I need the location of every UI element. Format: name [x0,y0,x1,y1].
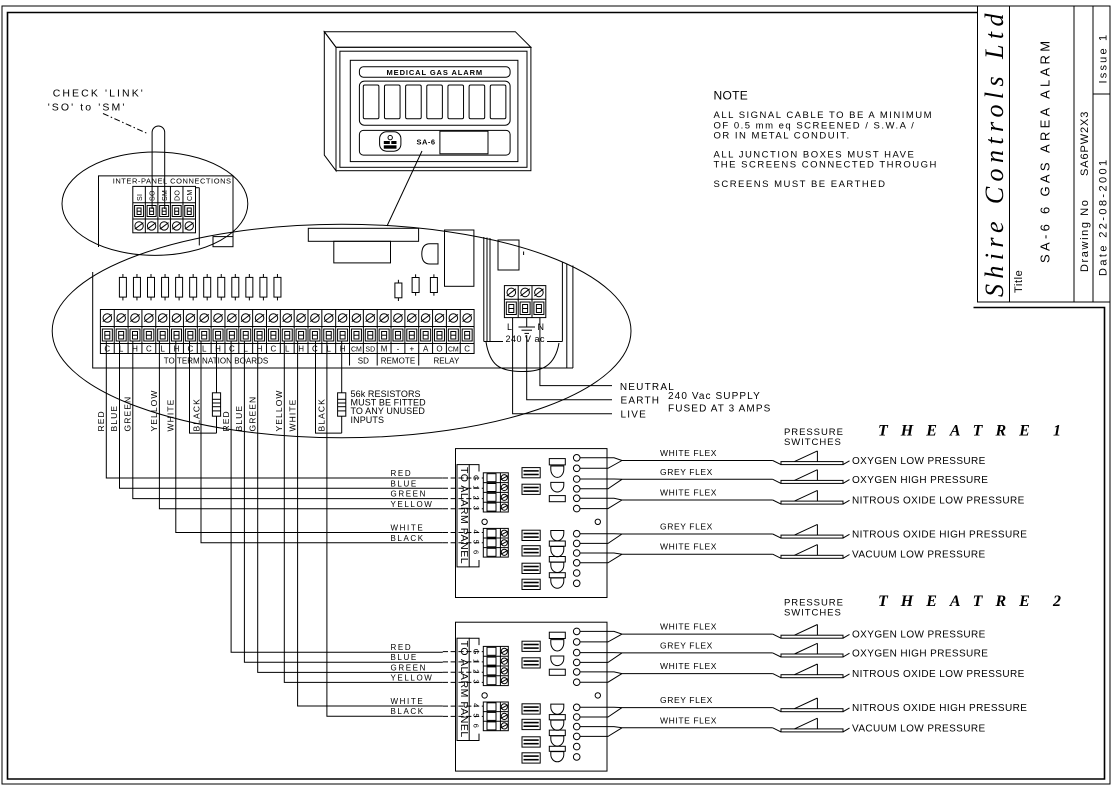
terminal 2 (L) screw [117,314,126,323]
terminal 10 (C) screw [228,314,237,323]
pressure switch: NITROUS OXIDE HIGH PRESSURE [773,534,781,538]
terminal SM screw [160,222,168,230]
capacitor C1 [122,274,124,277]
svg-text:240 V ac: 240 V ac [506,334,546,344]
cable hole [573,465,580,472]
tall component box [445,230,474,286]
cable gland [551,531,564,541]
dashed wire into junction box [443,532,484,534]
terminal 10 (C) clamp [227,329,237,341]
cable hole [573,550,580,557]
svg-text:Issue 1: Issue 1 [1098,33,1110,84]
svg-text:OXYGEN HIGH PRESSURE: OXYGEN HIGH PRESSURE [852,475,988,486]
svg-text:SWITCHES: SWITCHES [784,437,842,448]
dashed wire into junction box [443,487,484,489]
dashed wire into junction box [443,477,484,479]
svg-text:EARTH: EARTH [621,396,661,407]
svg-text:L: L [202,344,207,353]
mains terminal 1 clamp [506,302,516,315]
svg-text:NITROUS OXIDE LOW PRESSURE: NITROUS OXIDE LOW PRESSURE [852,496,1025,507]
alarm window 2 [384,85,400,119]
svg-text:GREEN: GREEN [391,663,427,672]
terminal 14 (L) screw [283,314,292,323]
alarm window 4 [427,85,443,119]
svg-text:C: C [229,344,235,353]
pressure switch: VACUUM LOW PRESSURE [773,554,781,558]
alarm panel front inner frame [340,51,527,167]
svg-text:INPUTS: INPUTS [351,415,385,425]
alarm panel title bar [359,67,510,77]
svg-text:H: H [340,344,346,353]
svg-text:Date 22-08-2001: Date 22-08-2001 [1098,157,1110,276]
svg-text:FUSED AT 3 AMPS: FUSED AT 3 AMPS [668,404,771,415]
cable clamp bar [549,557,565,563]
cable hole [573,505,580,512]
terminal 4 (C) screw [145,314,154,323]
svg-text:LIVE: LIVE [621,410,647,421]
wire RED theatre 1 [106,341,443,478]
svg-text:BLUE: BLUE [109,405,119,432]
terminal 27 (C) clamp [462,329,472,341]
svg-text:YELLOW: YELLOW [391,500,434,509]
cable hole [573,580,580,587]
svg-text:GREEN: GREEN [247,396,257,432]
svg-text:GREEN: GREEN [391,490,427,499]
wire GREEN theatre 2 [258,341,443,672]
svg-text:BLUE: BLUE [234,405,244,432]
title block divider 3 [1092,6,1094,302]
capacitor C10 [248,274,250,277]
svg-text:Shire Controls Ltd: Shire Controls Ltd [980,8,1009,297]
terminal 21 (M) screw [380,314,389,323]
terminal 24 (A) screw [421,314,430,323]
svg-text:CM: CM [187,190,194,202]
logo badge [380,132,401,152]
cable clamp bar [549,573,565,578]
cable gland [551,562,564,572]
svg-text:A: A [423,344,429,353]
pressure switch: OXYGEN LOW PRESSURE [773,461,781,465]
mains terminal 2 clamp [520,302,530,315]
pointer line from SA-6 panel to detail balloon [387,151,422,226]
terminal clamp component [522,579,540,589]
svg-text:GREY FLEX: GREY FLEX [660,522,713,532]
cable hole [573,495,580,502]
earth symbol [526,318,528,327]
svg-text:REMOTE: REMOTE [381,357,416,366]
pressure switch: OXYGEN HIGH PRESSURE [773,479,781,483]
mounting hole left [482,519,487,524]
terminal 8 (L) clamp [199,329,209,341]
terminal clamp component [522,484,540,494]
terminal 24 (A) clamp [421,329,431,341]
terminal 16 (C) screw [311,314,320,323]
svg-text:L: L [160,344,165,353]
svg-text:SD: SD [365,346,375,353]
terminal 13 (C) screw [269,314,278,323]
title block outline [978,6,1111,302]
pcb mark [523,252,525,256]
alarm panel bottom bar [359,130,510,155]
svg-text:WHITE: WHITE [287,399,297,432]
terminal SO clamp [147,206,156,217]
flex wire pair: GREY FLEX [580,478,773,480]
terminal 23 (+) screw [408,314,417,323]
mains terminal 2 screw [521,288,530,297]
capacitor C3 [150,274,152,277]
cable hole [573,560,580,567]
cable hole [573,476,580,483]
pressure switch: NITROUS OXIDE LOW PRESSURE [773,500,781,504]
cable gland [551,547,564,557]
alarm window 1 [363,85,379,119]
alarm panel left face [324,32,336,171]
capacitor C7 [206,274,208,277]
terminal 22 (-) clamp [393,329,403,341]
terminal 25 (O) clamp [434,329,444,341]
leader line (dash-dot) to link wire [103,114,149,135]
svg-text:H: H [298,344,304,353]
terminal 4 (C) clamp [144,329,154,341]
svg-text:5: 5 [472,540,481,544]
alarm panel window area [359,81,510,125]
svg-text:L: L [285,344,290,353]
terminal 19 (CM) clamp [351,329,361,341]
terminal 23 (+) clamp [407,329,417,341]
mounting hole right [595,519,600,524]
cable clamp bar [549,459,565,465]
svg-text:CM: CM [351,346,362,353]
wire WHITE theatre 1 [176,341,443,533]
svg-text:WHITE: WHITE [391,697,425,706]
title block divider 1 [1009,6,1011,302]
link wire loop SO to SM [152,126,165,209]
unused-input loop wire 1 [190,341,217,433]
resistor R1 56k [216,341,218,393]
TO ALARM PANEL text frame [457,465,469,567]
terminal 12 (H) screw [255,314,264,323]
svg-text:SWITCHES: SWITCHES [784,608,842,619]
terminal 8 (L) screw [200,314,209,323]
cable hole [573,486,580,493]
svg-text:NOTE: NOTE [714,89,749,103]
capacitor C9 [234,274,236,277]
svg-text:WHITE FLEX: WHITE FLEX [660,448,717,458]
svg-text:2: 2 [472,496,481,500]
terminal 20 (SD) screw [366,314,375,323]
terminal 18 (H) screw [338,314,347,323]
terminal 5 (L) clamp [158,329,168,341]
svg-text:1: 1 [472,485,481,489]
cable gland [551,466,564,477]
detail balloon: inter-panel connections [62,152,248,255]
svg-text:BLUE: BLUE [391,479,418,488]
svg-text:4: 4 [472,530,481,534]
terminal 5 (L) screw [158,314,167,323]
svg-text:C: C [187,344,193,353]
svg-text:C: C [464,344,470,353]
svg-text:SD: SD [358,357,369,366]
svg-text:OXYGEN LOW PRESSURE: OXYGEN LOW PRESSURE [852,456,986,467]
wire GREEN theatre 1 [133,341,443,499]
svg-text:BLACK: BLACK [192,398,202,431]
svg-text:RED: RED [221,410,231,431]
inter-panel terminal block SI SO SM DO CM [133,186,196,232]
terminal 25 (O) screw [435,314,444,323]
terminal 11 (L) clamp [241,329,251,341]
svg-text:CHECK 'LINK': CHECK 'LINK' [53,87,145,99]
junction box theatre 1 [443,448,1027,598]
terminal 17 (L) clamp [324,329,334,341]
wire RED theatre 2 [231,341,443,652]
svg-text:TO ALARM PANEL: TO ALARM PANEL [458,467,470,564]
flex wire pair: WHITE FLEX [580,498,773,500]
svg-text:6: 6 [472,550,481,554]
terminal 7 (C) clamp [185,329,195,341]
wire YELLOW theatre 2 [284,341,443,682]
terminal clamp component [522,546,540,556]
svg-text:SI: SI [137,194,144,201]
svg-text:SCREENS MUST BE EARTHED: SCREENS MUST BE EARTHED [714,179,887,190]
svg-text:THEATRE: THEATRE [878,423,1043,440]
terminal 27 (C) screw [463,314,472,323]
wire BLUE theatre 1 [120,341,443,488]
capacitor C6 [192,274,194,277]
terminal 17 (L) screw [324,314,333,323]
terminal 15 (H) clamp [296,329,306,341]
supply wall line 3 [489,238,491,342]
top connector (wide) [308,228,418,241]
terminal SM clamp [160,206,169,217]
wire BLUE theatre 2 [244,341,442,662]
unused-input loop wire 2 [316,341,342,433]
svg-text:SA6PW2X3: SA6PW2X3 [1079,111,1091,176]
svg-text:RELAY: RELAY [433,357,460,366]
terminal 13 (C) clamp [268,329,278,341]
wire YELLOW theatre 1 [159,341,442,509]
svg-text:Title: Title [1013,270,1025,293]
capacitor C5 [178,274,180,277]
svg-text:NEUTRAL: NEUTRAL [620,382,675,393]
svg-text:L: L [507,322,512,332]
terminal 7 (C) screw [186,314,195,323]
terminal clamp component [522,468,540,478]
capacitor C15 [433,274,435,277]
svg-text:YELLOW: YELLOW [149,389,159,431]
svg-text:+: + [409,344,414,353]
svg-text:BLACK: BLACK [391,707,425,716]
terminal SI clamp [135,206,144,217]
alarm panel recessed panel [350,60,518,161]
terminal 1 (C) clamp [102,329,112,341]
svg-text:GREY FLEX: GREY FLEX [660,467,713,477]
svg-text:THE SCREENS CONNECTED THROUGH: THE SCREENS CONNECTED THROUGH [714,160,938,171]
svg-text:WHITE: WHITE [391,524,425,533]
terminal 15 (H) screw [297,314,306,323]
mains terminal 3 screw [535,288,544,297]
junction box outline [456,449,608,598]
terminal CM screw [185,222,193,230]
supply wall line 2 [486,238,488,342]
capacitor C13 [397,280,399,283]
svg-text:C: C [271,344,277,353]
logo sun [388,135,392,139]
earth wire [527,335,612,400]
junction box theatre 2 (copy) [443,622,1027,772]
svg-text:Drawing No: Drawing No [1079,199,1091,272]
resistor R2 56k [341,341,343,393]
terminal CM clamp [185,206,194,217]
svg-text:SA-6: SA-6 [417,138,436,147]
svg-text:C: C [104,344,110,353]
svg-text:NITROUS OXIDE HIGH PRESSURE: NITROUS OXIDE HIGH PRESSURE [852,530,1027,541]
live wire [513,318,612,414]
terminal 26 (CM) screw [449,314,458,323]
top connector (lower) [334,241,391,263]
svg-text:GREEN: GREEN [123,396,133,432]
terminal 20 (SD) clamp [365,329,375,341]
capacitor C4 [164,274,166,277]
relay component D-shape [422,244,438,264]
svg-text:DO: DO [175,190,182,201]
alarm connector block lower [483,528,508,557]
terminal 21 (M) clamp [379,329,389,341]
alarm connector block upper [483,473,508,512]
mains compartment bottom edge with 240 V ac [484,341,503,343]
svg-text:BLUE: BLUE [391,653,418,662]
terminal 9 (H) clamp [213,329,223,341]
wire BLACK theatre 2 [327,341,443,716]
svg-text:WHITE FLEX: WHITE FLEX [660,488,717,498]
svg-text:MEDICAL GAS ALARM: MEDICAL GAS ALARM [387,68,484,77]
terminal SO screw [147,222,155,230]
svg-text:-: - [397,344,400,353]
inter-panel connection board outline [99,176,234,247]
svg-text:INTER-PANEL CONNECTIONS: INTER-PANEL CONNECTIONS [113,177,232,186]
capacitor C12 [276,274,278,277]
flex wire pair: WHITE FLEX [580,458,773,461]
terminal SI screw [135,222,143,230]
svg-text:YELLOW: YELLOW [391,673,434,682]
svg-text:O: O [436,344,442,353]
flex wire pair: WHITE FLEX [580,553,773,554]
svg-text:WHITE FLEX: WHITE FLEX [660,542,717,552]
dashed wire into junction box [443,498,484,500]
svg-text:OR IN METAL CONDUIT.: OR IN METAL CONDUIT. [714,130,851,141]
dashed wire into junction box [443,542,484,544]
terminal clamp component [522,530,540,540]
svg-text:C: C [146,344,152,353]
terminal 16 (C) clamp [310,329,320,341]
alarm panel SA-6 enclosure top face [324,32,531,48]
alarm panel front face [336,47,531,170]
svg-text:BLACK: BLACK [391,534,425,543]
svg-text:H: H [174,344,180,353]
strip group dividers [349,354,351,366]
capacitor C8 [220,274,222,277]
wire WHITE theatre 2 [298,341,443,706]
transformer block [498,240,519,270]
terminal 1 (C) screw [103,314,112,323]
neutral wire [540,318,612,386]
title block issue divider [1093,93,1110,95]
svg-text:SA-6 6 GAS AREA ALARM: SA-6 6 GAS AREA ALARM [1038,38,1053,263]
terminal 18 (H) clamp [338,329,348,341]
svg-text:N: N [538,322,545,332]
svg-text:SM: SM [162,190,169,201]
alarm panel display window [440,131,488,154]
svg-text:THEATRE: THEATRE [878,593,1043,610]
mains compartment right wall [561,262,563,342]
dashed wire into junction box [443,508,484,510]
supply wall line 1 [483,237,485,342]
panel outline inside balloon [93,272,573,368]
terminal 22 (-) screw [394,314,403,323]
svg-text:1: 1 [1053,423,1061,440]
cable gland [551,578,564,588]
svg-text:WHITE: WHITE [166,399,176,432]
terminal 26 (CM) clamp [448,329,458,341]
terminal 6 (H) screw [172,314,181,323]
alarm window 5 [448,85,464,119]
cable hole [573,455,580,462]
terminal 3 (H) clamp [130,329,140,341]
alarm window 7 [490,85,506,119]
svg-text:CM: CM [448,346,459,353]
alarm window 3 [406,85,422,119]
cable hole [573,540,580,547]
svg-text:'SO' to 'SM': 'SO' to 'SM' [48,102,127,114]
capacitor C11 [262,274,264,277]
svg-text:RED: RED [96,410,106,431]
mains terminal 3 clamp [534,302,544,315]
svg-text:YELLOW: YELLOW [274,389,284,431]
cable hole [573,530,580,537]
alarm window 6 [469,85,485,119]
wire BLACK theatre 1 [201,341,443,543]
main detail balloon ellipse [52,224,631,438]
svg-text:VACUUM LOW PRESSURE: VACUUM LOW PRESSURE [852,550,986,561]
terminal clamp component [522,563,540,573]
main terminal strip TB1 [100,310,474,354]
terminal 6 (H) clamp [172,329,182,341]
svg-text:BLACK: BLACK [317,398,327,431]
svg-text:2: 2 [1052,593,1061,610]
terminal 3 (H) screw [131,314,140,323]
terminal 19 (CM) screw [352,314,361,323]
terminal 12 (H) clamp [255,329,265,341]
cable clamp bar [549,496,565,502]
logo text blocks [384,141,390,144]
terminal 14 (L) clamp [282,329,292,341]
svg-text:3: 3 [472,506,481,510]
mains terminal block L E N [504,286,545,318]
svg-text:SO: SO [150,190,157,201]
terminal 11 (L) screw [241,314,250,323]
cable hole [573,570,580,577]
svg-text:RED: RED [391,643,413,652]
capacitor C14 [415,274,417,277]
svg-text:RED: RED [391,469,413,478]
terminal 2 (L) clamp [116,329,126,341]
svg-text:240 Vac SUPPLY: 240 Vac SUPPLY [668,391,761,402]
cable gland [551,482,564,492]
mains terminal 1 screw [507,288,516,297]
svg-text:M: M [381,344,388,353]
title block divider 2 [1073,6,1075,302]
terminal DO screw [172,222,180,230]
capacitor C2 [136,274,138,277]
